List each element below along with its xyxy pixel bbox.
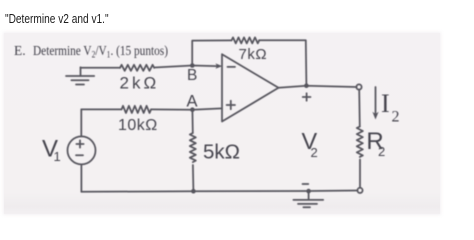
wire V1 bottom to rail: [80, 164, 82, 191]
ground G2 (bottom): [293, 191, 323, 207]
svg-text:2kΩ: 2kΩ: [120, 74, 160, 93]
wire 7k to output junction: [259, 40, 306, 85]
output wire op-amp to terminal: [279, 86, 357, 88]
svg-text:B: B: [187, 67, 197, 84]
wire 5k to bottom rail: [192, 165, 195, 191]
V1 plus sign: [76, 140, 83, 147]
scanned paper background: [4, 33, 440, 214]
op-amp plus sign: [227, 101, 235, 109]
node A junction dot: [190, 107, 195, 112]
wire V1 to resistor 10k: [81, 108, 121, 110]
bottom terminal circle: [357, 188, 362, 193]
op-amp U1: [222, 54, 279, 121]
resistor R2 (vertical): [357, 127, 363, 157]
svg-text:5kΩ: 5kΩ: [203, 141, 240, 164]
source V1: [68, 136, 96, 164]
minus label above bottom ground: [303, 183, 309, 185]
svg-text:1: 1: [54, 149, 61, 164]
bottom rail wire: [81, 191, 357, 192]
svg-text:2: 2: [378, 144, 385, 159]
op-amp minus sign: [228, 66, 236, 68]
resistor 2k ohm: [120, 65, 154, 71]
svg-text:Determine V2/V1. (15 puntos): Determine V2/V1. (15 puntos): [33, 43, 168, 60]
svg-text:2: 2: [311, 145, 318, 160]
arrowhead into minus input: [216, 63, 223, 68]
output junction dot: [304, 83, 309, 88]
svg-text:7kΩ: 7kΩ: [239, 46, 268, 63]
bottom rail junction dot (5k): [191, 189, 196, 194]
ground G2 (bottom) junction dot: [306, 189, 311, 194]
wire terminal down to R2: [358, 90, 361, 127]
output plus label: [303, 93, 311, 101]
V1 minus sign: [76, 154, 83, 156]
svg-text:I: I: [381, 89, 390, 118]
wire V1 top: [80, 109, 82, 136]
svg-text:A: A: [187, 92, 198, 110]
caption text: [5, 12, 109, 25]
svg-text:E.: E.: [14, 43, 26, 58]
resistor 5k ohm (vertical): [190, 133, 196, 162]
heading text "E. Determine V2/V1. (15 puntos)": [14, 43, 168, 60]
wire node B up to feedback rail: [192, 40, 231, 65]
wire R2 to bottom terminal: [359, 160, 361, 188]
output terminal circle (top): [356, 84, 361, 89]
svg-text:2: 2: [392, 109, 400, 126]
wire 10k to node A and op-amp plus input: [151, 108, 222, 109]
svg-text:10kΩ: 10kΩ: [118, 117, 158, 134]
node B junction dot: [190, 63, 195, 68]
wire 2k to node B and op-amp minus input: [154, 66, 216, 68]
resistor 7k ohm (feedback): [232, 37, 260, 43]
wire ground to resistor 2k: [81, 67, 121, 69]
current arrow I2: [372, 87, 378, 120]
wire node A down to 5k: [191, 110, 193, 133]
ground G1 (top left): [66, 67, 94, 84]
resistor 10k ohm: [122, 106, 152, 113]
